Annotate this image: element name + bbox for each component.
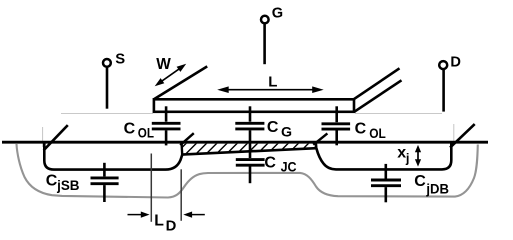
channel left end [180, 141, 183, 155]
terminal G circle [261, 16, 269, 24]
svg-text:C: C [267, 119, 279, 136]
source well outline [44, 142, 182, 170]
faint vertical guide left [42, 127, 44, 147]
L_D guide line left [150, 154, 152, 222]
svg-text:C: C [414, 173, 426, 190]
channel hatching [172, 141, 331, 158]
faint vertical guide right [453, 124, 455, 142]
svg-text:OL: OL [138, 125, 154, 140]
svg-text:C: C [264, 155, 276, 172]
capacitor C_jDB [371, 164, 401, 202]
break tick right [450, 124, 475, 148]
svg-text:JC: JC [281, 160, 297, 175]
capacitor C_jSB [91, 163, 119, 202]
terminal D stem [442, 70, 445, 112]
svg-text:L: L [154, 213, 164, 230]
break tick left [44, 125, 68, 150]
svg-text:j: j [405, 151, 410, 166]
terminal D circle [439, 61, 447, 69]
depletion boundary (gray) [17, 144, 478, 198]
channel bottom edge [182, 148, 317, 154]
gate slab right lower diagonal [354, 80, 401, 111]
substrate surface line [2, 141, 488, 144]
terminal G stem [263, 24, 266, 64]
L_D guide line right [180, 169, 182, 221]
x_j arrow [415, 145, 421, 167]
W arrow [155, 64, 187, 86]
svg-text:C: C [46, 173, 58, 190]
svg-text:G: G [281, 125, 292, 141]
channel corner tick right [313, 133, 327, 144]
svg-text:jSB: jSB [56, 178, 80, 193]
faint oxide guide line right [355, 113, 442, 115]
gate slab left top diagonal [154, 66, 207, 99]
svg-text:C: C [355, 120, 367, 137]
svg-text:C: C [124, 121, 136, 138]
capacitor C_OL right [322, 106, 351, 145]
channel right end [315, 141, 318, 149]
terminal S circle [103, 59, 111, 67]
gate slab right upper diagonal [354, 68, 400, 99]
terminal S stem [106, 67, 109, 109]
gate slab front face [154, 99, 354, 112]
svg-text:jDB: jDB [425, 181, 449, 196]
svg-text:D: D [166, 219, 177, 235]
svg-text:L: L [268, 73, 277, 90]
capacitor C_OL left [152, 106, 181, 145]
svg-text:S: S [115, 52, 125, 68]
L arrow [217, 86, 324, 93]
channel corner tick left [180, 133, 194, 145]
svg-text:x: x [397, 145, 406, 162]
svg-text:OL: OL [369, 126, 386, 141]
svg-text:D: D [450, 55, 461, 71]
capacitor C_G / C_JC stem [235, 106, 264, 158]
drain well outline [316, 142, 451, 169]
L_D arrow right [183, 212, 205, 218]
faint oxide guide line left [61, 113, 153, 115]
capacitor C_JC [236, 160, 265, 184]
L_D arrow left [128, 212, 150, 218]
svg-text:G: G [272, 5, 283, 21]
svg-text:W: W [156, 56, 171, 73]
